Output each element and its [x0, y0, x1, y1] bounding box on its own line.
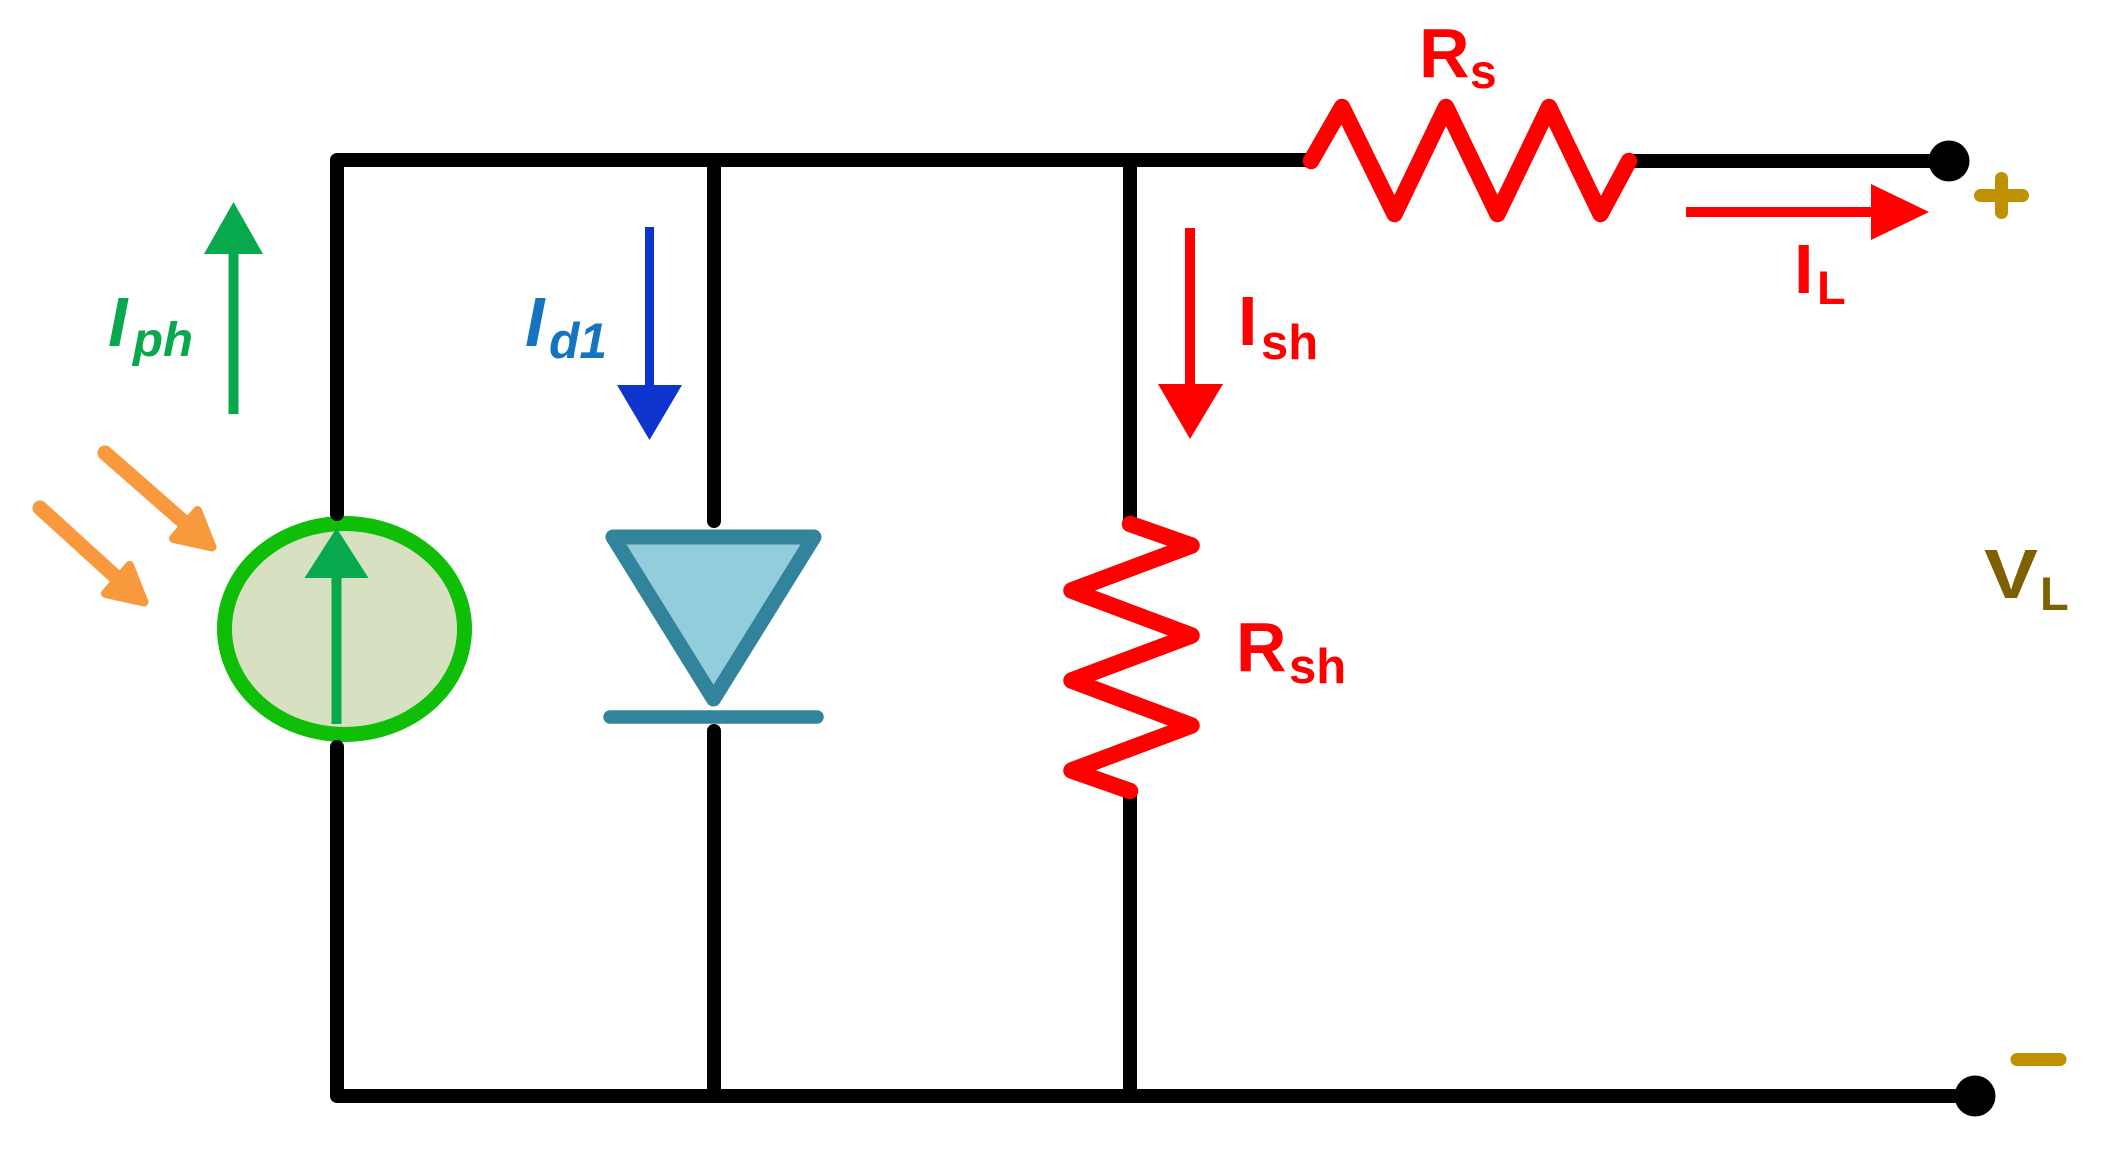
sun ray arrow 2 shaft	[40, 508, 118, 579]
svg-text:I: I	[1794, 230, 1813, 308]
IL arrow shaft	[1686, 207, 1873, 217]
wire diode branch lower	[707, 731, 721, 1096]
svg-text:I: I	[108, 283, 129, 361]
wire Rsh branch upper	[1123, 160, 1137, 524]
diode D1 triangle	[613, 537, 814, 699]
wire diode branch upper	[707, 160, 721, 521]
svg-text:I: I	[525, 283, 546, 361]
diode D1 cathode bar	[610, 710, 817, 724]
node - terminal dot	[1955, 1076, 1996, 1117]
wire top-right (Rs to + terminal)	[1629, 154, 1949, 168]
svg-text:V: V	[1984, 535, 2038, 613]
node + terminal dot	[1929, 141, 1970, 182]
wire Rsh branch lower	[1123, 790, 1137, 1096]
svg-text:L: L	[1817, 261, 1846, 314]
IL arrow head	[1871, 184, 1929, 240]
Id1 arrow head	[617, 385, 682, 440]
sun ray arrow 2 head	[106, 566, 145, 603]
svg-text:sh: sh	[1261, 316, 1318, 370]
plus terminal sign horizontal	[1981, 189, 2023, 202]
svg-text:I: I	[1238, 282, 1257, 360]
svg-text:sh: sh	[1289, 640, 1346, 694]
Iph arrow shaft	[229, 252, 239, 414]
resistor Rs zigzag	[1311, 107, 1629, 214]
svg-text:L: L	[2040, 567, 2069, 620]
resistor Rsh zigzag	[1072, 524, 1192, 791]
svg-text:ph: ph	[131, 314, 193, 367]
sun ray arrow 1 head	[174, 511, 213, 548]
current source circle	[225, 524, 465, 735]
svg-text:s: s	[1470, 46, 1497, 99]
svg-text:R: R	[1419, 14, 1470, 92]
Ish arrow shaft	[1185, 228, 1195, 384]
svg-text:R: R	[1236, 608, 1287, 686]
Ish arrow head	[1158, 384, 1223, 439]
current source arrow shaft	[332, 574, 342, 724]
wire bottom loop (left branch lower + bottom wire)	[337, 747, 1975, 1096]
plus terminal sign vertical	[1995, 179, 2008, 213]
svg-text:d1: d1	[549, 313, 607, 369]
wire top-left loop (left branch upper + top wire)	[337, 160, 1311, 514]
minus terminal sign	[2017, 1053, 2060, 1066]
sun ray arrow 1 shaft	[105, 453, 186, 524]
Iph arrow head	[204, 202, 263, 254]
Id1 arrow shaft	[645, 227, 654, 385]
current source arrow head	[305, 528, 369, 578]
